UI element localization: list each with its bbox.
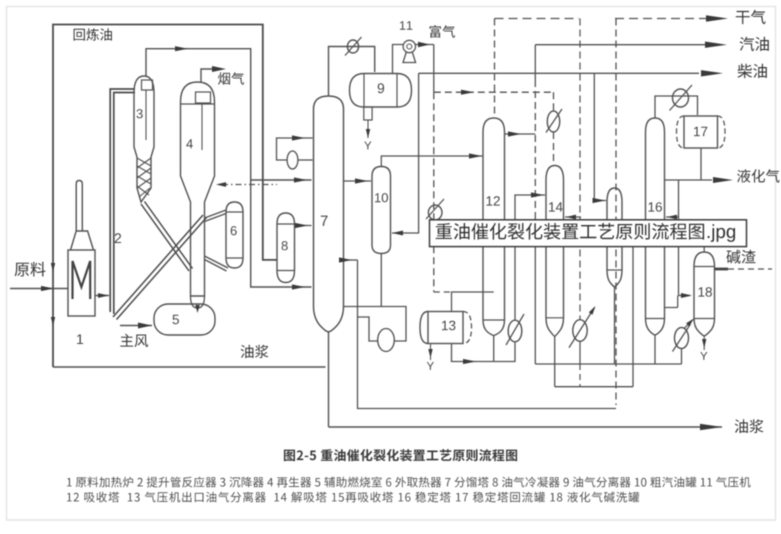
wire: recycle oil box (回炼油 loop) [53,25,277,368]
label 4 [186,139,193,148]
combustor 5 (辅助燃烧室) [154,304,215,335]
wire: reboiler return [685,317,696,328]
label 8 [282,241,288,250]
wire: pump discharge [415,42,434,92]
wire: top pumparound loop [277,135,313,160]
wire: diesel riser from 10 [392,73,419,235]
wire: into 14 right [565,215,581,220]
label 11 [400,21,412,30]
exchanger under 12 [506,314,524,345]
label 6 [231,226,237,235]
reboiler 16 [673,324,691,352]
wire: col7 to 10 [344,178,372,183]
wire: 18 top stub [703,247,705,253]
wire: 12 bottoms [483,320,505,362]
wire: reboiler 16 circuit [681,349,683,364]
label 烟气 [218,72,244,85]
wire: 10 bottoms [380,254,382,307]
label 2 [115,233,121,243]
wire: regenerator dipleg arrow [195,305,199,313]
settler 3 (沉降器) [134,76,154,202]
wire: slurry bottom line [53,366,326,368]
wire: dashed vertical x580 [579,19,581,387]
label 17 [694,127,707,136]
label 汽油 [740,37,769,51]
wire: 13 drain [427,344,434,370]
wire: reactor vapor line [146,46,312,290]
label 9 [378,83,384,93]
wire: dashed into col14 [553,92,555,165]
label 14 [549,202,563,211]
column 15 (再吸收塔) [607,188,622,287]
label 18 [699,287,712,297]
wire: dashed to absorber [434,90,554,95]
column 7 (分馏塔) [314,96,344,332]
wire: reflux into 16 [666,215,679,220]
cooler above col14 [546,109,562,133]
furnace 1 (原料加热炉) [68,181,95,317]
label 原料 [15,262,46,277]
column 12 (吸收塔) [483,118,505,336]
legend line 1 [67,477,751,488]
wire: level dash-dot [216,182,277,187]
wire: 12 overhead to gasoline riser [505,131,536,136]
wire: diesel into 15 [593,73,607,203]
label 3 [137,109,143,118]
label 碱渣 [727,250,756,264]
wire: gasoline line [535,42,727,48]
wire: caustic residue line [715,268,773,271]
riser 2 (提升管反应器) [110,89,135,314]
cooler 6 (外取热器) [226,202,243,268]
wire: branch into column at 180 [251,177,312,182]
title [284,449,517,461]
label 1 [77,334,83,344]
wire: diesel line [419,70,723,76]
wire: 15 bottoms [607,270,622,364]
wire: bottom pump circuit [344,260,617,409]
label 油浆 (left) [241,345,269,358]
reboiler under 14 [569,305,597,348]
label 回炼油 [74,28,112,41]
wire: 14 bottoms [546,318,564,387]
wire: down arrows on recycle line [51,263,55,326]
caption box [430,220,747,247]
label 7 [321,216,328,226]
wire: 9 to pump 11 [393,45,404,74]
regenerator 4 (再生器) [181,82,215,308]
wire: long dashed vertical [615,19,617,406]
legend line 2 [67,492,639,503]
label 10 [375,193,388,202]
bottoms pump [378,329,395,352]
label 5 [173,315,179,324]
label 12 [487,196,500,205]
label 液化气 [737,169,779,182]
wire: drain arrow under 9 [364,120,371,149]
pump 11 [403,40,416,62]
drain nozzle under 9 [364,107,372,120]
vessel 8 [277,213,295,283]
wire: dry gas from col12 [494,19,496,115]
wire: 13 bottoms to exchanger [452,343,516,365]
pump on pumparound [287,151,298,169]
wire: main air arrow [120,323,152,329]
label 干气 [736,10,766,24]
wire: vessel8 to column [295,223,312,228]
wire: cooler 6 top connector [205,210,227,222]
wire: col7 bottom draw [339,257,358,262]
label 13 [442,321,455,331]
wire: 16 bottoms [654,335,656,364]
wire: 17 bottoms [700,148,702,180]
wire: col7 overhead line [329,47,375,97]
wire: LPG line [665,177,734,183]
wire: furnace to riser [95,293,109,298]
label 16 [649,202,662,212]
wire: spent cat standpipe [141,202,193,272]
stripper 10 [372,167,391,254]
wire: 13 top riser [452,292,494,312]
wire: dashed compressor line down [434,92,452,292]
wire: flue gas line [201,66,226,82]
wire: slurry product line [329,424,723,430]
wire: gasoline riser x535 [534,45,536,364]
label 富气 [430,25,455,38]
column 14 (解吸塔) [546,166,564,337]
wire: main bottom line y364 [535,363,681,365]
wire: reflux down to 18 [665,180,693,308]
wire: into 12 at 156 [381,153,482,166]
valve on overhead [345,37,362,56]
wire: cooler 6 bottom connector [205,256,229,271]
label 油浆 (right) [735,419,764,433]
label 主风 [120,334,148,347]
wire: feed line into furnace [10,286,68,291]
separator 13 [420,312,472,344]
label 柴油 [738,64,767,78]
valve on 16 overhead [670,85,693,111]
wire: 16 overhead [655,96,698,118]
drum 9 (油气分离器) [350,74,412,108]
wire: exchanger up to col14 [515,192,545,320]
wire: dry gas header [495,15,729,21]
wire: U loop under 14-15 [555,247,633,387]
wire: 18 drain [700,336,707,360]
wash drum 18 [694,252,715,336]
wire: col7 bottoms to slurry [328,332,330,427]
column 16 (稳定塔) [646,118,665,335]
wire: regen cat standpipe [113,215,207,320]
valve on compressor line [426,199,444,220]
drum 17 (稳定塔回流罐) [677,116,726,148]
